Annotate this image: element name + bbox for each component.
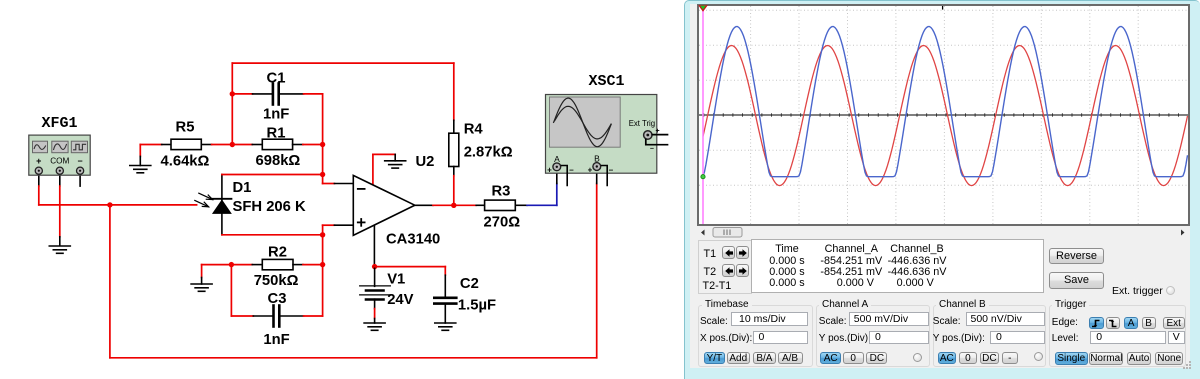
junction R2 right	[320, 262, 325, 267]
junction XFG1 node	[107, 202, 112, 207]
junction D1 bottom	[320, 232, 325, 237]
oscilloscope window frame	[684, 0, 1200, 379]
svg-text:–: –	[650, 146, 654, 153]
scope scrollbar	[697, 227, 1190, 238]
wire top feedback	[232, 63, 453, 120]
svg-text:COM: COM	[50, 157, 69, 166]
junction R1 right	[320, 142, 325, 147]
svg-text:XFG1: XFG1	[41, 115, 77, 132]
readout row T2	[727, 266, 847, 278]
svg-text:C2: C2	[460, 276, 479, 292]
XSC1 terminal A	[553, 163, 567, 186]
svg-text:+: +	[656, 128, 660, 135]
capacitor C3	[231, 306, 322, 327]
junction R5/R1/C1-branch	[230, 142, 235, 147]
Save button	[1049, 272, 1104, 289]
svg-text:1.5µF: 1.5µF	[458, 298, 496, 314]
photodiode light arrows	[195, 193, 213, 207]
resistor R1	[252, 139, 322, 149]
Channel B group	[933, 305, 1046, 367]
svg-text:R4: R4	[464, 122, 484, 138]
svg-text:–: –	[78, 156, 83, 166]
svg-text:4.64kΩ: 4.64kΩ	[161, 154, 210, 170]
wire bottom rail to XSC1 B	[596, 172, 598, 358]
wire C3 left branch	[230, 265, 232, 316]
label XFG1 terminals	[36, 156, 82, 167]
Trigger group	[1049, 305, 1186, 367]
label XSC1 B plus-minus	[588, 166, 614, 175]
junction D1 top	[320, 172, 325, 177]
svg-text:B: B	[594, 154, 600, 164]
ground (op-amp V-)	[385, 161, 406, 168]
svg-text:C1: C1	[267, 71, 286, 87]
wire left branch vertical	[231, 63, 233, 144]
wire non-inverting-input branch	[323, 225, 354, 316]
function generator XFG1	[29, 135, 90, 175]
scope plot (grid, waves, cursor)	[699, 6, 1188, 224]
XFG1 terminals	[35, 167, 83, 174]
svg-text:R3: R3	[491, 184, 510, 200]
svg-text:Ext Trig: Ext Trig	[629, 119, 655, 128]
svg-text:U2: U2	[416, 154, 435, 170]
op-amp U2 power pins	[373, 154, 395, 266]
wire R3 to XSC1 A (blue)	[527, 172, 557, 206]
resistor R5	[162, 139, 212, 149]
svg-text:XSC1: XSC1	[588, 73, 624, 90]
resistor R4	[449, 120, 459, 205]
junction R2/C3 left	[229, 262, 234, 267]
oscilloscope XSC1	[546, 95, 657, 174]
scope readout panel	[751, 239, 1044, 293]
wire R2 left to ground	[202, 265, 253, 284]
wire D1 bottom	[222, 234, 323, 236]
ground (XFG1 COM)	[49, 246, 70, 253]
ground (R2)	[191, 284, 212, 291]
svg-text:D1: D1	[233, 180, 252, 196]
wire XFG1 plus terminal to node	[39, 175, 197, 205]
wire V+ to C2	[375, 267, 446, 276]
svg-text:+: +	[588, 166, 593, 175]
svg-text:R2: R2	[268, 245, 287, 261]
junction output/R4	[451, 203, 456, 208]
scope graph area	[697, 4, 1190, 226]
wire bottom rail	[110, 357, 597, 359]
svg-text:R1: R1	[267, 126, 286, 142]
wire inverting-input branch	[323, 94, 354, 184]
resistor R2	[252, 259, 322, 269]
svg-text:2.87kΩ: 2.87kΩ	[464, 145, 513, 161]
svg-text:R5: R5	[176, 120, 195, 136]
svg-text:+: +	[36, 156, 41, 166]
svg-text:24V: 24V	[387, 292, 413, 308]
svg-text:CA3140: CA3140	[386, 232, 440, 248]
capacitor C2	[434, 275, 456, 323]
svg-text:+: +	[547, 166, 552, 175]
svg-text:V1: V1	[387, 272, 405, 288]
resistor R3	[476, 200, 527, 210]
readout header	[727, 243, 847, 255]
svg-text:SFH 206 K: SFH 206 K	[233, 199, 307, 215]
Channel A group	[816, 305, 930, 367]
svg-text:698kΩ: 698kΩ	[256, 153, 301, 169]
svg-text:–: –	[569, 166, 574, 175]
readout row T2-T1	[727, 277, 847, 289]
op-amp U2	[353, 175, 415, 235]
resize grip	[1183, 361, 1192, 370]
battery V1	[360, 267, 391, 323]
wire R5 to R1	[212, 144, 253, 146]
T1/T2 cursor controls	[698, 240, 752, 294]
ground (C2)	[435, 323, 456, 330]
wire XFG1 COM to ground	[59, 175, 61, 246]
wire D1 top	[222, 174, 323, 176]
oscilloscope window content	[690, 4, 1190, 368]
label XSC1 A plus-minus	[547, 166, 574, 175]
Ext trigger label	[1112, 285, 1163, 297]
wire XFG1 minus stub	[79, 175, 81, 187]
svg-text:750kΩ: 750kΩ	[254, 273, 299, 289]
svg-text:1nF: 1nF	[263, 332, 289, 348]
junction C1 left	[230, 91, 235, 96]
Timebase group	[698, 305, 813, 367]
readout row T1	[727, 255, 847, 267]
wire op-amp output	[415, 204, 476, 206]
capacitor C1	[232, 84, 322, 105]
svg-text:270Ω: 270Ω	[484, 215, 521, 231]
svg-text:–: –	[609, 166, 614, 175]
Reverse button	[1049, 248, 1104, 264]
svg-text:1nF: 1nF	[263, 107, 289, 123]
label Ext Trig plus-minus	[650, 128, 660, 153]
photodiode D1	[212, 175, 231, 235]
XSC1 terminal B	[593, 163, 607, 186]
junction op-amp V+/V1/C2	[372, 264, 377, 269]
wire node to bottom rail	[109, 205, 111, 358]
wire R5 left to ground	[140, 145, 161, 166]
svg-text:A: A	[554, 154, 560, 164]
svg-text:C3: C3	[268, 291, 287, 307]
ground (V1)	[364, 323, 385, 330]
ground (R5)	[130, 166, 151, 173]
XSC1 Ext Trig terminal	[644, 131, 668, 145]
